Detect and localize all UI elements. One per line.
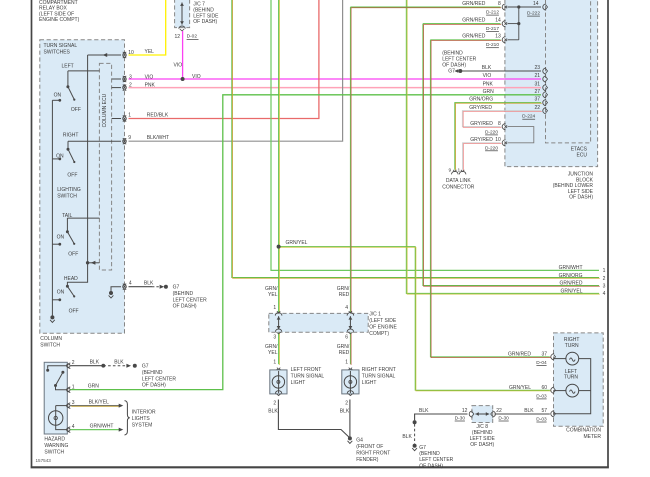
svg-text:BLK: BLK xyxy=(482,65,492,71)
wire GRN/WHT (hazard pin 4 to interior lights) xyxy=(71,429,120,431)
connector pin 4 xyxy=(123,284,127,290)
svg-text:DATA LINK: DATA LINK xyxy=(446,178,471,184)
svg-text:23: 23 xyxy=(534,65,540,71)
wire YEL xyxy=(129,0,166,55)
hazard warning switch box xyxy=(44,362,67,434)
connector pin 3 xyxy=(123,76,127,82)
svg-text:GRN/RED: GRN/RED xyxy=(559,281,582,287)
connector pin 2 xyxy=(123,85,127,91)
svg-text:D-220: D-220 xyxy=(485,129,498,135)
svg-text:8: 8 xyxy=(498,121,501,127)
svg-text:COLUMN ECU: COLUMN ECU xyxy=(102,93,108,127)
svg-text:GRY/RED: GRY/RED xyxy=(469,105,492,111)
svg-text:ON: ON xyxy=(56,153,64,159)
J/C 1 connector pin 4 xyxy=(347,313,354,316)
svg-text:SWITCHES: SWITCHES xyxy=(44,49,71,55)
svg-text:BLK: BLK xyxy=(114,360,124,366)
svg-text:METER: METER xyxy=(584,434,602,440)
svg-text:RED/BLK: RED/BLK xyxy=(147,112,169,118)
svg-text:OFF: OFF xyxy=(67,172,77,178)
svg-text:BLK: BLK xyxy=(144,281,154,287)
svg-text:OF DASH): OF DASH) xyxy=(470,442,494,448)
svg-text:FENDER): FENDER) xyxy=(356,457,379,463)
svg-text:GRN/YEL: GRN/YEL xyxy=(561,288,583,294)
connector pin 10 xyxy=(123,52,127,58)
svg-text:12: 12 xyxy=(174,34,180,40)
hazard switch contacts xyxy=(48,366,68,369)
svg-text:157543: 157543 xyxy=(36,458,52,463)
wire VIO horizontal xyxy=(129,78,542,80)
J/C 1 connector pin 6 xyxy=(347,329,353,332)
svg-text:1: 1 xyxy=(72,384,75,390)
svg-text:VIO: VIO xyxy=(145,74,154,80)
svg-text:OF DASH): OF DASH) xyxy=(173,304,197,310)
svg-text:COMPT): COMPT) xyxy=(369,331,389,337)
svg-text:GRN/RED: GRN/RED xyxy=(462,34,485,40)
column ECU box xyxy=(99,63,111,270)
ground G4 xyxy=(348,436,352,440)
junction block internal tee (pins 8/14/13 to ETACS pin 14) xyxy=(508,6,542,8)
svg-text:WARNING: WARNING xyxy=(44,443,68,449)
junction block box xyxy=(505,0,598,167)
wire GRY/RED (to data link pin 1) xyxy=(463,143,501,170)
svg-text:VIO: VIO xyxy=(174,63,183,69)
wire PNK xyxy=(129,87,542,89)
interior lights system brace xyxy=(124,401,129,435)
svg-text:BLK: BLK xyxy=(90,360,100,366)
wire RED/BLK xyxy=(129,0,319,119)
ECU pin stubs xyxy=(112,78,121,80)
svg-text:GRY/RED: GRY/RED xyxy=(470,137,493,143)
svg-text:GRN/YEL: GRN/YEL xyxy=(286,240,308,246)
wire GRN (ETACS to hazard switch) xyxy=(70,95,541,390)
hazard indicator lamp xyxy=(56,405,68,407)
J/C 7 box xyxy=(175,0,190,28)
svg-text:OF ENGINE: OF ENGINE xyxy=(369,325,397,331)
svg-text:ON: ON xyxy=(57,234,65,240)
svg-text:31: 31 xyxy=(534,81,540,87)
svg-text:GRN/ORG: GRN/ORG xyxy=(559,273,583,279)
svg-text:YEL: YEL xyxy=(268,350,278,356)
svg-text:YEL: YEL xyxy=(268,292,278,298)
svg-text:G7: G7 xyxy=(173,285,180,291)
svg-text:G7: G7 xyxy=(448,68,455,74)
svg-text:D-03: D-03 xyxy=(536,393,547,399)
svg-text:GRN/YEL: GRN/YEL xyxy=(509,385,531,391)
svg-text:9: 9 xyxy=(449,167,452,173)
svg-text:LIGHTING: LIGHTING xyxy=(57,187,81,193)
junction VIO xyxy=(181,77,185,81)
svg-text:14: 14 xyxy=(533,1,539,7)
svg-text:GRN/RED: GRN/RED xyxy=(508,351,531,357)
svg-text:G7: G7 xyxy=(142,364,149,370)
svg-text:GRN: GRN xyxy=(483,89,495,95)
wire BLK (column switch pin4 to G7) xyxy=(129,286,153,288)
svg-text:G7: G7 xyxy=(419,445,426,451)
svg-text:9: 9 xyxy=(128,135,131,141)
wire BLK (right lamp to G4) xyxy=(349,400,351,437)
connector pin 9 xyxy=(123,138,127,144)
svg-text:LEFT CENTER: LEFT CENTER xyxy=(419,457,453,463)
internal wire: YEL feed rail to switches xyxy=(88,54,121,56)
svg-text:GRY/RED: GRY/RED xyxy=(470,121,493,127)
svg-text:VIO: VIO xyxy=(192,74,201,80)
wire BLK/WHT xyxy=(129,0,343,141)
svg-text:TURN SIGNAL: TURN SIGNAL xyxy=(291,373,325,379)
svg-text:ON: ON xyxy=(54,93,62,99)
svg-text:OFF: OFF xyxy=(69,309,79,315)
svg-text:BLK/WHT: BLK/WHT xyxy=(147,135,169,141)
svg-text:HAZARD: HAZARD xyxy=(44,437,65,443)
svg-text:OF DASH): OF DASH) xyxy=(193,19,217,25)
svg-text:LEFT CENTER: LEFT CENTER xyxy=(142,376,176,382)
svg-text:BLK: BLK xyxy=(340,409,350,415)
direction arrow on feed wire xyxy=(103,53,108,57)
svg-text:TURN: TURN xyxy=(564,375,578,381)
ETACS ECU box xyxy=(546,0,591,143)
svg-text:GRN/RED: GRN/RED xyxy=(462,1,485,7)
svg-text:CONNECTOR: CONNECTOR xyxy=(442,184,475,190)
svg-text:D-30: D-30 xyxy=(498,416,509,422)
svg-text:1: 1 xyxy=(603,268,606,274)
junction block internal loop D-220 xyxy=(508,127,534,143)
svg-text:RIGHT FRONT: RIGHT FRONT xyxy=(356,451,390,457)
ground G7 (bottom right) xyxy=(413,444,417,448)
wire BLK (J/C 8 pin 12 to ground G7) xyxy=(415,414,468,420)
combination meter connectors 37/60/57 xyxy=(551,354,554,360)
pin 4 internal ground wire xyxy=(111,287,121,293)
svg-text:22: 22 xyxy=(534,105,540,111)
svg-text:60: 60 xyxy=(541,385,547,391)
svg-text:(BEHIND: (BEHIND xyxy=(142,370,163,376)
connector pin 1 xyxy=(123,116,127,122)
svg-text:GRN/RED: GRN/RED xyxy=(462,18,485,24)
svg-text:BLK: BLK xyxy=(524,408,534,414)
ground G7 (column switch) xyxy=(164,285,168,289)
wire BLK/YEL (hazard pin 3 to interior lights) xyxy=(71,405,120,407)
svg-text:YEL: YEL xyxy=(145,49,155,55)
svg-text:INTERIOR: INTERIOR xyxy=(132,409,156,415)
svg-text:3: 3 xyxy=(273,335,276,341)
svg-text:2: 2 xyxy=(345,401,348,407)
turn signal switches box (column switch) xyxy=(40,40,125,333)
wire GRN/WHT vertical to right edge pin 1 xyxy=(271,0,599,270)
svg-text:2: 2 xyxy=(603,276,606,282)
hazard pin connectors xyxy=(67,364,70,367)
svg-text:10: 10 xyxy=(495,137,501,143)
svg-text:GRN/WHT: GRN/WHT xyxy=(90,424,114,430)
svg-text:SWITCH: SWITCH xyxy=(57,193,77,199)
svg-text:RIGHT: RIGHT xyxy=(63,132,79,138)
J/C 1 box xyxy=(269,313,368,332)
svg-text:D-212: D-212 xyxy=(486,10,499,16)
svg-text:LEFT CENTER: LEFT CENTER xyxy=(173,297,207,303)
combination meter box xyxy=(554,333,604,426)
wire BLK (combination meter pin 57 to J/C 8) xyxy=(495,413,550,415)
svg-text:37: 37 xyxy=(541,351,547,357)
svg-text:RED: RED xyxy=(339,350,350,356)
J/C 7 bottom connector pin 12 / D-02 xyxy=(179,26,185,29)
J/C 8 connector pin 12 D-30 xyxy=(469,411,472,417)
svg-text:4: 4 xyxy=(129,281,132,287)
svg-text:D-30: D-30 xyxy=(455,416,466,422)
svg-text:(LEFT SIDE: (LEFT SIDE xyxy=(369,318,397,324)
svg-text:D-04: D-04 xyxy=(536,360,547,366)
svg-text:LIGHTS: LIGHTS xyxy=(132,416,151,422)
svg-text:COMBINATION: COMBINATION xyxy=(566,428,601,434)
svg-text:37: 37 xyxy=(534,97,540,103)
wire BLK (left lamp to G4) xyxy=(278,400,350,439)
wire: rail to head switch common xyxy=(67,263,87,287)
svg-text:BLK/YEL: BLK/YEL xyxy=(89,400,110,406)
svg-text:1: 1 xyxy=(273,305,276,311)
svg-text:14: 14 xyxy=(495,18,501,24)
svg-text:OFF: OFF xyxy=(68,251,78,257)
svg-text:OF DASH): OF DASH) xyxy=(142,383,166,389)
svg-text:BLK: BLK xyxy=(419,408,429,414)
ground G7 (hazard) xyxy=(133,364,137,368)
svg-text:OF DASH): OF DASH) xyxy=(569,195,593,201)
svg-text:D-210: D-210 xyxy=(486,42,499,48)
wire GRN/ORG (ETACS pin 37 to data link) xyxy=(455,103,541,170)
svg-text:D-03: D-03 xyxy=(536,417,547,423)
J/C 8 box xyxy=(472,406,493,423)
ON common rail xyxy=(51,100,53,317)
svg-text:RIGHT FRONT: RIGHT FRONT xyxy=(362,367,396,373)
svg-text:BLK: BLK xyxy=(268,409,278,415)
svg-text:VIO: VIO xyxy=(483,73,492,79)
svg-text:4: 4 xyxy=(603,291,606,297)
combination meter internal wiring xyxy=(554,359,591,414)
svg-text:LEFT: LEFT xyxy=(62,63,74,69)
svg-text:HEAD: HEAD xyxy=(64,276,78,282)
svg-text:OFF: OFF xyxy=(71,107,81,113)
wire GRN/YEL branch to combination meter xyxy=(279,247,550,391)
svg-text:D-02: D-02 xyxy=(187,34,198,40)
svg-text:TURN: TURN xyxy=(565,343,579,349)
junction GRN/YEL xyxy=(277,245,281,249)
svg-text:SYSTEM: SYSTEM xyxy=(132,423,153,429)
svg-text:1: 1 xyxy=(345,360,348,366)
svg-text:ENGINE COMPT): ENGINE COMPT) xyxy=(39,17,80,23)
svg-text:D-217: D-217 xyxy=(486,26,499,32)
svg-text:LEFT FRONT: LEFT FRONT xyxy=(291,367,322,373)
svg-text:GRN/ORG: GRN/ORG xyxy=(469,97,493,103)
wire BLK (hazard pin 2 to G7) xyxy=(71,365,104,367)
wire GRN/RED D-210 xyxy=(430,40,549,357)
svg-text:(BEHIND: (BEHIND xyxy=(173,291,194,297)
svg-text:BLK: BLK xyxy=(402,434,412,440)
svg-text:SWITCH: SWITCH xyxy=(44,449,64,455)
svg-text:(BEHIND: (BEHIND xyxy=(419,451,440,457)
svg-text:LIGHT: LIGHT xyxy=(362,380,377,386)
J/C 1 connector pin 1 xyxy=(275,313,282,316)
ground (column switch rail) xyxy=(50,315,54,319)
svg-text:J/C 8: J/C 8 xyxy=(476,424,488,430)
wire GRN/ORG vertical to right edge pin 2 xyxy=(232,0,599,278)
wire GRY/RED (ETACS pin 22 D-224) xyxy=(462,111,541,127)
svg-text:57: 57 xyxy=(541,408,547,414)
svg-text:22: 22 xyxy=(496,408,502,414)
wire GRN/YEL (main, to J/C1 and front left lamp) xyxy=(278,0,280,313)
svg-text:(FRONT OF: (FRONT OF xyxy=(356,444,383,450)
svg-text:D-224: D-224 xyxy=(522,114,535,120)
wire GRN/RED D-217 xyxy=(423,23,501,25)
ETACS connector pin 14 / D-222 xyxy=(543,4,546,10)
svg-text:SWITCH: SWITCH xyxy=(40,343,60,349)
svg-text:8: 8 xyxy=(498,1,501,7)
junction: feed rail to ECU sense xyxy=(86,261,89,264)
svg-text:RED: RED xyxy=(339,292,350,298)
svg-text:21: 21 xyxy=(534,73,540,79)
wire VIO from J/C 7 xyxy=(182,31,184,79)
svg-text:J/C 1: J/C 1 xyxy=(369,312,381,318)
wire GRN/RED to right edge pin 3 xyxy=(423,24,599,286)
svg-text:12: 12 xyxy=(462,408,468,414)
svg-text:G4: G4 xyxy=(356,438,363,444)
svg-text:1: 1 xyxy=(273,360,276,366)
svg-text:13: 13 xyxy=(495,34,501,40)
svg-text:3: 3 xyxy=(603,284,606,290)
svg-text:TURN SIGNAL: TURN SIGNAL xyxy=(362,373,396,379)
svg-text:6: 6 xyxy=(345,335,348,341)
svg-text:D-220: D-220 xyxy=(485,145,498,151)
wire GRN/RED (to J/C1 pin4, D-212 feed) xyxy=(349,7,351,313)
svg-text:COLUMN: COLUMN xyxy=(40,336,62,342)
wire GRN/YEL to right edge pin 4 xyxy=(406,0,599,293)
svg-text:ECU: ECU xyxy=(576,152,587,158)
svg-text:OF DASH): OF DASH) xyxy=(419,463,443,469)
svg-text:4: 4 xyxy=(345,305,348,311)
svg-text:2: 2 xyxy=(273,401,276,407)
svg-text:LIGHT: LIGHT xyxy=(291,380,306,386)
J/C 1 connector pin 3 xyxy=(275,329,281,332)
svg-text:GRN/WHT: GRN/WHT xyxy=(559,265,583,271)
svg-text:27: 27 xyxy=(534,89,540,95)
svg-text:PNK: PNK xyxy=(145,83,156,89)
svg-text:D-222: D-222 xyxy=(527,11,540,17)
J/C 8 connector pin 22 D-30 xyxy=(492,411,495,417)
svg-text:PNK: PNK xyxy=(483,81,494,87)
svg-text:GRN: GRN xyxy=(88,384,100,390)
svg-text:TURN SIGNAL: TURN SIGNAL xyxy=(44,43,78,49)
svg-text:1: 1 xyxy=(128,112,131,118)
svg-text:ON: ON xyxy=(57,290,65,296)
